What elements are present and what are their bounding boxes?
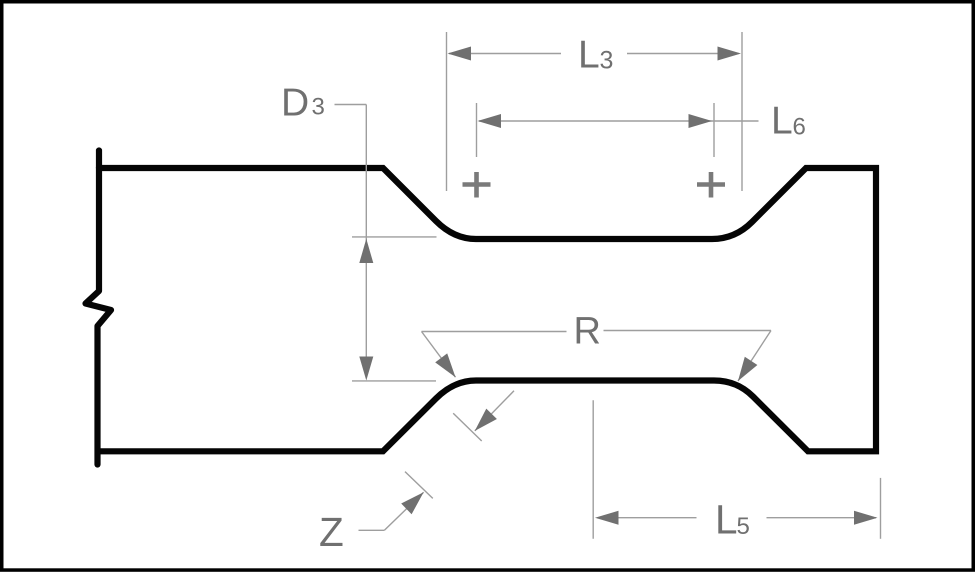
R leader left diagonal: [422, 332, 456, 378]
Z arrow: [401, 492, 423, 514]
svg-text:L: L: [771, 100, 793, 143]
fillet tick: [453, 413, 482, 441]
L3 extension line right: [741, 32, 743, 191]
svg-text:3: 3: [312, 94, 325, 121]
L5 extension line right: [880, 478, 882, 539]
R leader right horizontal: [604, 330, 772, 332]
L3 dimension line: [449, 53, 561, 55]
D3 tick top: [352, 236, 437, 238]
Z tick: [405, 472, 433, 499]
dimension D3: [335, 105, 437, 381]
L5 extension line left: [592, 400, 594, 539]
L6 dimension line: [479, 120, 759, 122]
dimension Z: [359, 472, 433, 531]
D3 tick bottom: [352, 380, 436, 382]
left edge with break symbol: [86, 151, 112, 465]
R leader right diagonal: [738, 331, 771, 382]
svg-text:6: 6: [793, 114, 806, 141]
svg-text:Z: Z: [319, 509, 344, 555]
L5 arrowheads: [595, 511, 619, 525]
R arrow left: [435, 353, 455, 377]
R leader left horizontal: [422, 331, 567, 333]
D3 leader horizontal: [335, 104, 367, 106]
D3 arrow up: [359, 239, 373, 263]
Z leader horizontal: [359, 529, 385, 531]
L6 extension line right: [713, 103, 715, 157]
svg-text:5: 5: [737, 513, 750, 540]
L6 arrowheads: [478, 114, 502, 128]
dimension L6: [477, 103, 759, 157]
D3 leader vertical: [365, 105, 367, 379]
svg-text:L: L: [578, 34, 600, 77]
dimension R: [422, 331, 772, 382]
specimen outline (dogbone): [99, 168, 876, 451]
fillet transition arrow: [453, 391, 514, 441]
svg-text:L: L: [715, 497, 738, 543]
D3 arrow down: [359, 357, 373, 381]
R arrow right: [738, 357, 757, 381]
gauge mark plus left: [463, 172, 491, 198]
L3 arrowheads: [448, 47, 472, 61]
svg-text:R: R: [574, 311, 601, 353]
Z leader diagonal: [384, 492, 423, 530]
gauge mark plus right: [697, 172, 725, 198]
L5 dimension line: [597, 517, 697, 519]
dimension L5: [593, 400, 880, 539]
svg-text:D: D: [281, 81, 309, 124]
L3 extension line left: [446, 32, 448, 191]
svg-text:3: 3: [600, 47, 614, 75]
dimension L3: [447, 32, 743, 191]
L6 extension line left: [476, 103, 478, 157]
